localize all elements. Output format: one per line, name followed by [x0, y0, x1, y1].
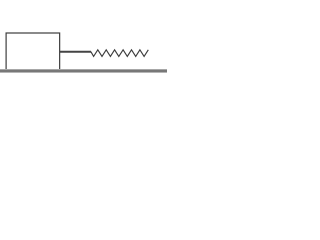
mass block M	[6, 33, 60, 70]
wire	[60, 51, 91, 53]
spring K1	[91, 50, 148, 57]
ground	[0, 69, 167, 73]
